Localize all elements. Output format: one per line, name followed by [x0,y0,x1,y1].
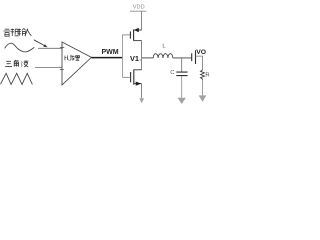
svg-text:VDD: VDD [133,5,145,11]
channel bar [133,29,135,40]
ground under lower MOSFET [139,98,144,103]
wire drain vertical [141,58,143,70]
wire source to ground [141,84,143,98]
arrow from audio input to comparator [34,40,48,47]
svg-text:V1: V1 [130,54,139,63]
ground under R [199,95,207,101]
inductor L [153,54,173,58]
wire PWM: comparator output to gate bus [91,57,122,59]
plus input [60,45,64,49]
drain lead with arrow [134,29,142,31]
coupling capacitor (series, at VO) [191,53,193,61]
svg-text:VO: VO [196,49,206,56]
transistor V1-top (upper MOSFET) [122,28,141,41]
label 三角波 (triangle wave) [5,60,28,67]
minus input [60,69,64,71]
capacitor C [176,72,187,76]
wire: triangle wave to - input [35,67,62,69]
wire capacitor C to ground [181,76,183,98]
transistor V1-bottom (lower MOSFET) [122,58,141,86]
svg-text:C: C [170,70,174,76]
wire drain to VDD rail [141,11,143,30]
drain lead [134,69,142,71]
wire: audio input to + input [38,47,62,49]
wire VO to resistor R [196,56,203,70]
svg-text:PWM: PWM [102,49,119,56]
wire top gate lead [122,34,130,36]
wire node V1 to inductor [142,57,154,59]
wire inductor to output cap [173,57,192,59]
VDD power rail [130,10,146,12]
triangle wave symbol [1,73,33,84]
source lead [134,40,142,42]
label 音频输入 (audio input) [4,28,32,36]
ground under C [178,98,186,104]
op-amp comparator 比较器 [62,42,91,85]
source lead with arrow [134,83,142,85]
wire junction down to capacitor C [181,58,183,72]
svg-text:R: R [205,73,209,79]
wire gate bus vertical [121,35,123,77]
sine wave symbol [5,43,35,52]
wire resistor to ground [202,80,204,96]
wire bottom gate lead [122,76,130,78]
resistor R [201,70,205,80]
gate bar [130,72,132,82]
gate bar [129,31,131,38]
channel bar [133,69,135,84]
wire source down to node V1 [141,41,143,58]
label 比较器 (comparator) text strokes [65,55,80,60]
